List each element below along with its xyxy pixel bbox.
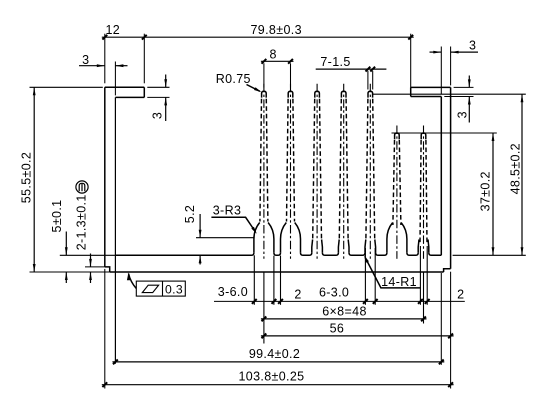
svg-text:56: 56 (330, 321, 345, 335)
leader R0.75 line (247, 85, 260, 92)
svg-text:3: 3 (151, 112, 165, 119)
extension line: platform underside right (444, 96, 473, 98)
svg-text:3: 3 (82, 53, 89, 67)
dimension 37 arrow bottom (492, 247, 495, 255)
extension line: left step bottom (85, 266, 105, 268)
dimension 48.5 arrow top (521, 94, 524, 102)
dimension 55.5±0.2 line (33, 87, 35, 272)
fin 6 tapered sides (hidden lines) (393, 140, 395, 225)
extension line: fin5 top level long (372, 93, 526, 95)
top lip underside (115, 96, 144, 98)
dimension 2-1.3±0.1 lower segment+arrow (90, 272, 92, 283)
dimension 6x8=48 tick right (421, 317, 426, 322)
svg-text:2: 2 (457, 287, 464, 301)
leader R0.75 arrow (254, 87, 261, 92)
fin 1 centerline (263, 84, 265, 259)
svg-text:55.5±0.2: 55.5±0.2 (19, 152, 33, 203)
fin 2 wide root (6.0) flare (281, 223, 301, 253)
dimension 8 line (261, 60, 294, 62)
dimension 79.8 tick right (408, 35, 413, 40)
leader 3-R3 line (211, 217, 255, 231)
dimension 99.4±0.2 line (112, 361, 444, 363)
fin 6 tip (R0.75 rounded top) (395, 133, 400, 139)
extension line: lip underside right (147, 96, 169, 98)
fin 3 tip (R0.75 rounded top) (315, 91, 320, 97)
bottom-left step (105, 267, 110, 272)
flatness symbol (parallelogram) (142, 285, 158, 292)
dimension 3 (platform) lower segment (468, 97, 470, 123)
fin 1 wide root (6.0) flare (254, 223, 274, 253)
svg-text:12: 12 (105, 23, 120, 37)
dimension 3 (right wall) arrow right (451, 51, 459, 54)
dimension 56 line (261, 335, 454, 337)
dimension 3 (platform) upper segment (468, 76, 470, 88)
right wall inner edge (440, 97, 442, 256)
svg-text:103.8±0.25: 103.8±0.25 (239, 370, 305, 384)
fin 2 tip (R0.75 rounded top) (288, 91, 293, 97)
top lip right edge (143, 87, 145, 97)
dimension 3 (left wall) line right segment (115, 65, 127, 67)
dimension 12 tick left (102, 35, 107, 40)
dimension 3 (lip) upper segment (165, 75, 167, 88)
extension line: right wall inner down (440, 273, 442, 365)
fin 5 tapered sides (hidden lines) (366, 99, 368, 239)
chain tick at fin1 root L (252, 299, 257, 304)
dimension 12 line (102, 36, 145, 38)
dimension 3 (right wall) line right segment (451, 51, 478, 53)
chain dimension line (3-6.0 / 2 / 6-3.0 / 2) (214, 300, 465, 302)
extension line: left wall inner up (114, 62, 116, 96)
dimension 37 arrow top (492, 133, 495, 141)
extension line: left wall outer down (104, 269, 106, 389)
extension line: right wall outer up (450, 47, 452, 86)
fin 7 tapered sides (hidden lines) (420, 140, 421, 244)
fin 1 root right extension (273, 256, 275, 305)
extension line: lip top right (147, 86, 169, 88)
svg-text:6×8=48: 6×8=48 (322, 304, 367, 318)
extension line: platform top right (454, 86, 474, 88)
chain tick at fin7 side R (425, 299, 430, 304)
svg-text:79.8±0.3: 79.8±0.3 (251, 23, 302, 37)
svg-text:3-R3: 3-R3 (213, 203, 242, 217)
fin 2 centerline (290, 84, 292, 259)
fin 4 root (3.0) (338, 240, 349, 253)
fin 1 tip (R0.75 rounded top) (262, 91, 267, 97)
chain tick at fin2 root L (278, 299, 283, 304)
right wall outer edge (450, 87, 452, 268)
dimension 55.5 arrow bottom (33, 264, 36, 272)
top lip top surface (105, 86, 145, 88)
svg-text:6-3.0: 6-3.0 (319, 286, 349, 300)
dimension 56 tick left (262, 334, 267, 339)
dimension 3 (lip) arrow bottom (164, 97, 167, 105)
dimension 8 tick right (288, 59, 293, 64)
extension line: right wall inner up (440, 47, 442, 95)
base bottom surface (110, 271, 444, 273)
dimension 7-1.5 line (316, 68, 387, 70)
dimension 103.8 tick left (102, 382, 107, 387)
dimension 3 (right wall) arrow left (433, 51, 441, 54)
fin 3 centerline (316, 84, 318, 259)
dimension 3 (lip) lower segment (165, 97, 167, 121)
extension line: base bottom left (30, 271, 110, 273)
extension line: base top right (453, 254, 526, 256)
chain tick at fin5 root R (373, 299, 378, 304)
right top platform left edge (410, 87, 412, 96)
dimension 79.8 tick left (142, 35, 147, 40)
dimension 5±0.1 lower segment+arrow (65, 272, 67, 283)
extension line: fin5 right side up (372, 71, 374, 90)
dimension 48.5±0.2 line (521, 94, 523, 255)
base top surface with fin root valleys (R1 fillets) (115, 253, 441, 256)
dimension 99.4 tick left (113, 360, 118, 365)
extension line: fin1 center up (263, 63, 265, 87)
extension line: base top left (60, 254, 116, 256)
svg-text:37±0.2: 37±0.2 (478, 171, 492, 211)
fin 7 side extension lines (419, 246, 421, 305)
dimension 99.4 tick right (439, 360, 444, 365)
svg-text:3: 3 (456, 111, 470, 118)
flatness leader arrow (127, 272, 130, 280)
chain tick at fin7 side L (418, 299, 423, 304)
fin 1 centerline extension to lower dims (263, 272, 265, 344)
leader 3-R3 arrow (251, 227, 256, 234)
chain tick at fin1 root R (272, 299, 277, 304)
fin 3 tapered sides (hidden lines) (313, 99, 315, 239)
svg-text:8: 8 (270, 47, 277, 61)
extension line: lip right edge up (143, 34, 145, 84)
svg-text:99.4±0.2: 99.4±0.2 (249, 347, 300, 361)
extension line: lip top left (30, 86, 103, 88)
svg-text:5.2: 5.2 (183, 205, 197, 223)
dimension 103.8±0.25 line (102, 384, 454, 386)
dimension 3 (left wall) arrow left (97, 64, 105, 67)
left wall inner edge (extends down as extension line for 99.4 dim) (114, 97, 116, 363)
dimension 7-1.5 tick right (370, 67, 375, 72)
svg-text:0.3: 0.3 (165, 282, 183, 296)
dimension 37±0.2 line (492, 133, 494, 255)
fin 7 centerline extension to lower dims (423, 272, 425, 324)
dimension 6x8=48 tick left (262, 317, 267, 322)
svg-text:2: 2 (294, 287, 301, 301)
extension line: fin2 center up (290, 63, 292, 87)
bottom-right step (444, 269, 451, 272)
extension line: short fin top right (392, 132, 497, 134)
flatness feature control frame (136, 281, 185, 296)
dimension 3 (platform) arrow top (468, 79, 471, 87)
fin 7 tip (R0.75 rounded top) (421, 133, 426, 139)
dimension 3 (right wall) line left segment (430, 51, 442, 53)
chain tick at fin5 root L (363, 299, 368, 304)
fin 5 root side extension lines (364, 248, 366, 305)
fin 2 tapered sides (hidden lines) (287, 99, 289, 222)
dimension 6x8=48 line (261, 318, 427, 320)
fin 4 tip (R0.75 rounded top) (341, 91, 346, 97)
dimension 3 (left wall) arrow right (115, 64, 123, 67)
fin 6 wide root (6.0) flare (387, 223, 407, 253)
flatness leader line (129, 274, 137, 289)
extension line: left wall outer up (104, 34, 106, 84)
dimension 5.2 upper segment+arrow (199, 214, 201, 238)
fin 5 tip (R0.75 rounded top) (368, 91, 373, 97)
dimension 3 (platform) arrow bottom (468, 97, 471, 105)
fin 4 centerline (343, 84, 345, 259)
extension line: right wall outer down (450, 272, 452, 389)
dimension 3 (lip) arrow top (164, 79, 167, 87)
svg-text:3: 3 (469, 39, 476, 53)
svg-text:48.5±0.2: 48.5±0.2 (509, 143, 523, 194)
dimension 103.8 tick right (448, 382, 453, 387)
dimension 2-1.3±0.1 upper segment+arrow (90, 254, 92, 267)
fin 5 centerline (369, 84, 371, 259)
extension line: fin1 flare top left (196, 237, 255, 239)
dimension 55.5 arrow top (33, 87, 36, 95)
symbol circle above 2-1.3 text (circled m) (76, 181, 88, 193)
dimension 3 (left wall) line left segment (79, 65, 105, 67)
fin 3 root (3.0) (312, 240, 323, 253)
dimension 48.5 arrow bottom (521, 247, 524, 255)
fin 7 centerline (423, 126, 425, 259)
fin 2 root left extension (280, 256, 282, 305)
right top platform underside (411, 96, 442, 98)
svg-text:5±0.1: 5±0.1 (50, 200, 64, 233)
extension line: 79.8 right end / platform left edge up (410, 34, 412, 88)
leader 14-R1 line (365, 258, 421, 288)
svg-text:14-R1: 14-R1 (381, 275, 417, 289)
fin 7 root (3.0) (418, 240, 429, 253)
svg-text:7-1.5: 7-1.5 (320, 55, 350, 69)
fin 6 centerline (396, 126, 398, 259)
dimension 79.8±0.3 line (144, 36, 413, 38)
svg-text:2-1.3±0.1: 2-1.3±0.1 (75, 194, 89, 250)
svg-text:3-6.0: 3-6.0 (218, 285, 248, 299)
fin 5 root (3.0) (365, 240, 376, 253)
right top platform top surface (411, 86, 451, 88)
dimension 5±0.1 upper segment+arrow (65, 232, 67, 256)
svg-text:R0.75: R0.75 (216, 72, 251, 86)
dimension 7-1.5 tick left (366, 67, 371, 72)
left wall outer edge (104, 87, 106, 267)
dimension 8 tick left (262, 59, 267, 64)
fin 4 tapered sides (hidden lines) (339, 99, 341, 239)
fin 1 tapered sides (hidden lines) (260, 99, 262, 222)
leader 14-R1 arrow (364, 255, 369, 262)
dimension 5.2 lower segment+arrow (199, 255, 201, 264)
dimension 56 tick right (448, 334, 453, 339)
extension line: fin5 left side up (367, 71, 369, 90)
fin 1 root left extension (253, 255, 255, 304)
